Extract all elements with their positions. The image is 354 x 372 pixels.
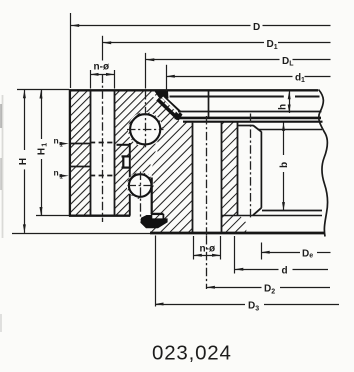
bottom seal (dark blob)	[140, 215, 167, 228]
line B	[170, 96, 284, 98]
svg-text:d: d	[282, 266, 288, 277]
hole centerline (inner ring, dash-dot)	[206, 116, 208, 236]
svg-text:1: 1	[301, 77, 305, 84]
svg-text:n-ø: n-ø	[94, 62, 110, 73]
scan artifact left edge	[1, 95, 3, 332]
D dimension	[71, 13, 331, 88]
bottom bolt hole edges (inner ring)	[192, 123, 194, 233]
bolt hole left edge (outer ring)	[90, 90, 92, 215]
outer ring bottom edge	[69, 215, 130, 217]
d1 dimension	[166, 65, 330, 91]
svg-text:b: b	[279, 162, 290, 168]
line E thick	[183, 121, 323, 123]
line G bore bottom	[262, 210, 322, 212]
svg-text:L: L	[289, 61, 294, 68]
top surface line	[69, 89, 318, 91]
D3 dimension	[155, 236, 339, 313]
svg-text:023,024: 023,024	[152, 342, 232, 365]
svg-text:D: D	[302, 249, 309, 260]
n-ø top dimension	[90, 62, 115, 89]
svg-text:1: 1	[42, 143, 49, 147]
hole centerline (outer ring, dash-dot)	[102, 75, 104, 223]
d dimension	[235, 236, 329, 277]
D1 dimension	[103, 36, 331, 61]
svg-text:D: D	[264, 284, 271, 295]
hidden dashed lines across hole	[90, 142, 115, 144]
svg-text:3: 3	[255, 305, 259, 312]
right strip inner edge (raceway bore)	[129, 143, 131, 177]
b dimension	[279, 122, 290, 210]
inner ring bottom step	[151, 178, 153, 215]
svg-text:D: D	[267, 39, 274, 50]
H dimension	[12, 90, 150, 234]
DL dimension	[146, 53, 331, 89]
upper companion left edge	[208, 91, 210, 118]
top seal (dark wedge band)	[155, 91, 183, 121]
bolt hole right edge (outer ring)	[114, 90, 116, 215]
svg-text:D: D	[248, 300, 255, 311]
D2 dimension	[206, 236, 330, 296]
H1 dimension	[36, 90, 69, 216]
seam line right	[221, 215, 322, 217]
white gap channel above ball 1	[152, 94, 167, 109]
svg-text:e: e	[309, 253, 313, 260]
n1 callouts	[54, 136, 69, 181]
ball 2 (lower row)	[129, 174, 152, 197]
svg-text:1: 1	[274, 44, 278, 51]
seam lines left strip	[69, 143, 90, 145]
svg-text:n-ø: n-ø	[200, 244, 216, 255]
loading plug pocket	[122, 155, 131, 157]
svg-text:H: H	[37, 148, 48, 155]
svg-text:n: n	[54, 168, 59, 178]
white block (bore collar)	[237, 122, 239, 216]
line D thick	[175, 117, 322, 120]
svg-text:2: 2	[271, 289, 275, 296]
h dimension	[278, 91, 291, 113]
outer ring left block (hatched mass with bolt hole + ball pockets cut out)	[69, 90, 177, 216]
svg-text:D: D	[282, 56, 289, 67]
svg-text:D: D	[253, 22, 260, 33]
line C	[178, 111, 322, 113]
outer ring left edge	[69, 89, 71, 215]
svg-text:n: n	[54, 136, 59, 146]
line F	[258, 129, 322, 131]
raceway step between ball rows	[117, 144, 131, 146]
n-ø bottom dimension	[193, 236, 220, 260]
ball 1 (upper row)	[130, 114, 160, 144]
De dimension	[261, 243, 330, 260]
inner ring (hatched mass with bottom bolt hole + ball pockets cut out)	[127, 112, 246, 233]
bottom surface thick	[150, 232, 325, 235]
wavy break line	[319, 90, 328, 237]
svg-text:H: H	[18, 158, 29, 165]
svg-text:h: h	[278, 104, 289, 110]
